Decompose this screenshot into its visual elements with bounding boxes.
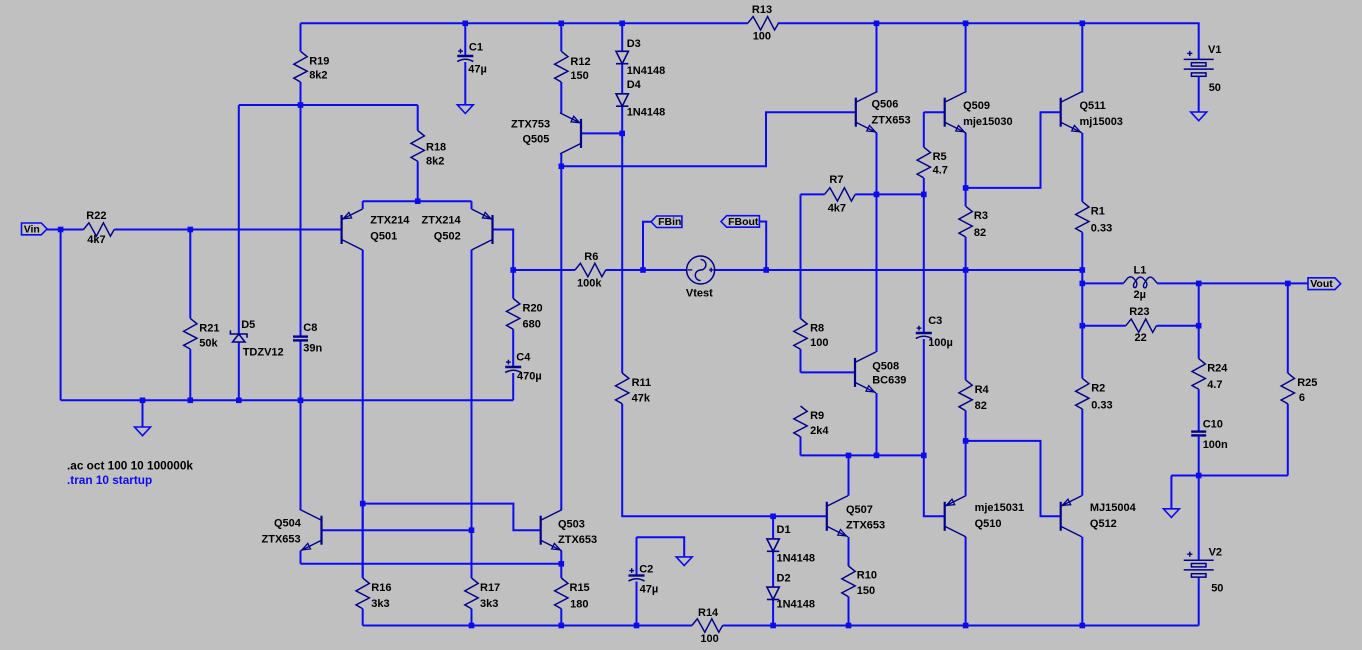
wire Q512 collector stub <box>1081 537 1083 626</box>
junction <box>763 267 769 273</box>
transistor Q501 <box>342 209 363 250</box>
resistor R11 <box>616 373 629 404</box>
wire R1 R2 column <box>1081 270 1083 378</box>
Q509 name <box>963 100 990 112</box>
R14 value <box>700 633 718 645</box>
wire C4 lower lead <box>512 373 514 400</box>
wire C4 upper lead <box>512 329 514 367</box>
svg-text:mje15031: mje15031 <box>975 502 1025 514</box>
D1 name <box>777 524 791 536</box>
svg-text:R24: R24 <box>1207 363 1228 375</box>
C2 value <box>640 584 659 596</box>
svg-text:C3: C3 <box>928 315 942 327</box>
wire R7 left hook <box>800 194 802 318</box>
D4 value <box>627 107 666 119</box>
svg-text:FBin: FBin <box>658 216 681 228</box>
wire top rail left <box>301 22 748 24</box>
junction <box>1080 281 1086 287</box>
wire R20 C4 column <box>512 270 514 299</box>
capacitor C4 <box>505 360 521 373</box>
Q512 type <box>1090 502 1137 514</box>
svg-text:Q510: Q510 <box>975 518 1002 530</box>
wire R4 bottom lead <box>965 411 967 441</box>
svg-text:R2: R2 <box>1091 382 1105 394</box>
wire Q503 base feed <box>363 504 540 531</box>
wire C8 column lower <box>300 340 302 400</box>
Q507 type <box>846 520 885 532</box>
svg-text:ZTX653: ZTX653 <box>872 114 911 126</box>
svg-text:100: 100 <box>810 337 828 349</box>
junction <box>1080 323 1086 329</box>
R5 name <box>933 151 947 163</box>
svg-text:R3: R3 <box>974 210 988 222</box>
wire Q504 collector stub <box>300 400 302 510</box>
svg-text:D5: D5 <box>241 319 255 331</box>
wire Q504 emitter rail <box>301 563 562 565</box>
wire Q503 collector column <box>560 166 562 510</box>
junction <box>188 227 194 233</box>
transistor Q504 <box>301 510 322 551</box>
C2 name <box>639 564 653 576</box>
junction <box>770 514 776 520</box>
Q507 name <box>846 504 873 516</box>
D4 name <box>627 79 642 91</box>
junction <box>963 623 969 629</box>
R7 name <box>829 174 843 186</box>
Q506 name <box>872 99 899 111</box>
svg-text:6: 6 <box>1299 392 1305 404</box>
resistor R13 <box>748 17 779 30</box>
resistor R7 <box>825 188 877 201</box>
wire D4 bottom lead <box>621 106 623 133</box>
Q504 name <box>274 517 302 529</box>
R19 value <box>309 70 327 82</box>
Vtest name <box>686 287 713 299</box>
wire zobel ground stub <box>1170 476 1172 509</box>
svg-text:D4: D4 <box>627 79 642 91</box>
svg-text:Q506: Q506 <box>872 99 899 111</box>
flag FBin <box>651 216 682 228</box>
R15 name <box>570 582 590 594</box>
svg-text:Q505: Q505 <box>523 134 550 146</box>
svg-text:L1: L1 <box>1134 265 1147 277</box>
flag FBin label <box>658 216 681 228</box>
C1 value <box>468 64 487 76</box>
Q504 type <box>262 534 301 546</box>
svg-text:.tran 10 startup: .tran 10 startup <box>67 473 152 487</box>
wire mid rail B <box>606 269 687 271</box>
Q510 name <box>975 518 1002 530</box>
resistor R16 <box>356 504 369 626</box>
wire C3 bottom lead <box>923 339 925 455</box>
wire Q505 base stub <box>581 132 622 134</box>
resistor R17 <box>465 530 478 625</box>
diode D4 <box>616 94 628 106</box>
svg-text:100: 100 <box>753 31 771 43</box>
svg-text:47µ: 47µ <box>468 64 487 76</box>
svg-text:R9: R9 <box>810 410 824 422</box>
R3 name <box>974 210 988 222</box>
wire Q504 emitter stub <box>300 551 302 564</box>
resistor R10 <box>842 566 855 626</box>
R17 name <box>480 582 500 594</box>
wire R25 top lead <box>1287 283 1289 373</box>
wire Q509 collector stub <box>965 23 967 92</box>
svg-text:R11: R11 <box>632 377 652 389</box>
svg-text:Q507: Q507 <box>846 504 873 516</box>
wire Q504 base rail <box>322 529 472 531</box>
svg-text:100µ: 100µ <box>928 337 953 349</box>
svg-text:R19: R19 <box>309 56 329 68</box>
svg-text:TDZV12: TDZV12 <box>243 346 284 358</box>
ground at V1 <box>1191 112 1207 121</box>
flag Vout <box>1308 278 1341 290</box>
svg-text:100: 100 <box>700 633 718 645</box>
wire Q506 collector stub <box>876 23 878 92</box>
wire R15 top lead <box>560 564 562 578</box>
svg-text:Vin: Vin <box>24 223 40 235</box>
wire FBout stub <box>760 222 767 271</box>
wire D3 D4 link <box>621 64 623 94</box>
wire D3 top lead <box>621 23 623 51</box>
svg-text:C8: C8 <box>303 322 317 334</box>
junction <box>188 398 194 404</box>
junction <box>1080 267 1086 273</box>
junction <box>1196 281 1202 287</box>
junction <box>874 192 880 198</box>
transistor Q508 <box>855 352 876 393</box>
C3 value <box>928 337 953 349</box>
svg-text:C10: C10 <box>1203 419 1223 431</box>
svg-text:180: 180 <box>570 599 588 611</box>
wire Q510 base feed <box>924 455 945 516</box>
wire Q509 emitter stub <box>965 133 967 188</box>
R11 name <box>632 377 652 389</box>
wire bottom rail right <box>723 625 1199 627</box>
resistor R21 <box>184 230 197 401</box>
R20 name <box>523 303 543 315</box>
D1 value <box>777 553 816 565</box>
Q501 name <box>370 231 397 243</box>
svg-text:Vout: Vout <box>1310 278 1333 290</box>
D5 name <box>241 319 255 331</box>
wire mid rail C <box>715 269 1083 271</box>
junction <box>360 501 366 507</box>
wire Q502 collector column <box>471 250 473 578</box>
wire bias node <box>239 104 418 106</box>
junction <box>874 453 880 459</box>
R15 value <box>570 599 588 611</box>
svg-text:R16: R16 <box>371 582 391 594</box>
V2 value <box>1211 583 1223 595</box>
diode D1 <box>767 539 779 551</box>
D5 value <box>243 346 284 358</box>
L1 name <box>1134 265 1147 277</box>
svg-text:R15: R15 <box>570 582 590 594</box>
wire C1 ground lead <box>464 62 466 105</box>
D3 name <box>627 38 641 50</box>
svg-text:2k4: 2k4 <box>810 425 829 437</box>
wire R4 top lead <box>965 270 967 380</box>
junction <box>634 623 640 629</box>
junction <box>559 561 565 567</box>
svg-text:150: 150 <box>570 70 588 82</box>
capacitor C1 <box>457 49 473 62</box>
voltage source V2 <box>1184 552 1214 578</box>
diode D3 <box>616 51 628 63</box>
R24 value <box>1207 379 1222 391</box>
wire R12 top lead <box>560 23 562 51</box>
wire Q508 base wire <box>801 371 856 373</box>
R2 value <box>1091 400 1112 412</box>
V2 name <box>1209 546 1222 558</box>
wire Q501 emitter stub <box>362 201 364 209</box>
ground at input rail <box>135 427 151 436</box>
resistor R25 <box>1281 373 1294 404</box>
wire D1 top lead <box>772 516 774 539</box>
wire mid rail A <box>513 269 575 271</box>
R21 value <box>199 338 218 350</box>
wire Q501 collector column <box>362 250 364 578</box>
resistor R2 <box>1076 378 1089 409</box>
svg-text:470µ: 470µ <box>517 371 542 383</box>
wire Q509 base wire <box>924 111 945 113</box>
svg-text:R23: R23 <box>1129 306 1149 318</box>
R1 name <box>1091 206 1105 218</box>
junction <box>1285 281 1291 287</box>
wire zobel row <box>1171 475 1287 477</box>
svg-text:C2: C2 <box>639 564 653 576</box>
svg-text:R20: R20 <box>523 303 543 315</box>
R25 value <box>1299 392 1305 404</box>
resistor R15 <box>555 578 568 626</box>
junction <box>963 185 969 191</box>
R13 value <box>753 31 771 43</box>
wire V2 bottom lead <box>1198 577 1200 625</box>
wire C2 top hook <box>636 537 638 575</box>
wire Q502 base jog <box>493 230 514 271</box>
wire R3 top lead <box>965 188 967 206</box>
junction <box>559 623 565 629</box>
Q512 name <box>1090 518 1117 530</box>
wire lower mid rail <box>801 454 924 456</box>
inductor L1 <box>1123 277 1157 288</box>
wire D1 D2 link <box>772 551 774 587</box>
wire Q511 emitter stub <box>1081 133 1083 202</box>
svg-text:R21: R21 <box>199 322 219 334</box>
svg-text:R10: R10 <box>857 569 877 581</box>
R23 value <box>1135 332 1147 344</box>
junction <box>140 398 146 404</box>
svg-text:R5: R5 <box>933 151 947 163</box>
diode D2 <box>767 587 779 599</box>
zener D5 <box>230 330 247 342</box>
R14 name <box>698 607 719 619</box>
svg-text:50: 50 <box>1209 82 1221 94</box>
junction <box>510 267 516 273</box>
C10 name <box>1203 419 1223 431</box>
svg-text:R12: R12 <box>570 56 590 68</box>
resistor R4 <box>959 380 972 411</box>
svg-text:47k: 47k <box>632 393 651 405</box>
junction <box>1196 473 1202 479</box>
resistor R6 <box>575 263 606 276</box>
Q502 name <box>434 231 461 243</box>
svg-text:ZTX653: ZTX653 <box>846 520 885 532</box>
Q502 type <box>422 215 462 227</box>
capacitor C10 <box>1191 432 1206 436</box>
wire R24 column top <box>1198 283 1200 358</box>
wire C1 top lead <box>464 23 466 56</box>
junction <box>846 453 852 459</box>
junction <box>463 21 469 27</box>
wire R24 C10 link <box>1198 389 1200 431</box>
transistor Q506 <box>856 92 877 133</box>
resistor R1 <box>1076 202 1089 233</box>
Q509 type <box>963 116 1013 128</box>
R3 value <box>974 227 986 239</box>
resistor R24 <box>1192 359 1205 390</box>
wire top rail right <box>778 23 1199 59</box>
wire R23 row right <box>1157 325 1199 327</box>
resistor R8 <box>794 319 807 350</box>
junction <box>963 438 969 444</box>
junction <box>1196 323 1202 329</box>
svg-text:R13: R13 <box>752 4 772 16</box>
svg-text:ZTX653: ZTX653 <box>558 534 597 546</box>
flag FBout <box>721 216 759 228</box>
svg-text:mj15003: mj15003 <box>1080 116 1123 128</box>
wire R11 column upper <box>621 133 623 373</box>
svg-text:50k: 50k <box>199 338 218 350</box>
svg-text:82: 82 <box>975 400 987 412</box>
R4 name <box>975 384 990 396</box>
svg-text:1N4148: 1N4148 <box>777 599 816 611</box>
svg-text:8k2: 8k2 <box>426 156 444 168</box>
svg-text:Q512: Q512 <box>1090 518 1117 530</box>
svg-text:50: 50 <box>1211 583 1223 595</box>
resistor R3 <box>959 206 972 237</box>
junction <box>559 164 565 170</box>
V1 name <box>1208 44 1221 56</box>
wire D2 bottom lead <box>772 600 774 626</box>
junction <box>619 131 625 137</box>
junction <box>619 21 625 27</box>
resistor R18 <box>411 105 424 201</box>
Q503 name <box>558 518 585 530</box>
resistor R23 <box>1126 319 1157 332</box>
R2 name <box>1091 382 1105 394</box>
Q508 name <box>872 360 899 372</box>
R16 value <box>371 598 389 610</box>
svg-text:FBout: FBout <box>728 216 759 228</box>
wire FBin stub <box>643 222 651 270</box>
svg-text:8k2: 8k2 <box>309 70 327 82</box>
svg-text:39n: 39n <box>303 342 322 354</box>
wire Q509 Q511 link <box>966 112 1061 188</box>
resistor R22 <box>84 223 115 236</box>
svg-text:680: 680 <box>523 319 541 331</box>
R4 value <box>975 400 987 412</box>
svg-text:.ac oct 100 10 100000k: .ac oct 100 10 100000k <box>67 459 193 473</box>
svg-text:Q511: Q511 <box>1080 100 1106 112</box>
svg-text:Vtest: Vtest <box>686 287 713 299</box>
ground at zobel <box>1163 509 1179 518</box>
L1 value <box>1134 289 1146 301</box>
wire R1 bottom lead <box>1081 232 1083 270</box>
junction <box>236 398 242 404</box>
R20 value <box>523 319 541 331</box>
svg-text:D2: D2 <box>777 572 791 584</box>
flag Vin <box>22 223 48 235</box>
svg-text:R17: R17 <box>480 582 500 594</box>
R24 name <box>1207 363 1228 375</box>
svg-text:1N4148: 1N4148 <box>627 65 666 77</box>
wire input row 2 <box>114 229 341 231</box>
svg-text:3k3: 3k3 <box>480 598 498 610</box>
svg-text:BC639: BC639 <box>872 375 906 387</box>
wire L1 row right <box>1157 282 1308 284</box>
transistor Q507 <box>827 496 848 537</box>
C4 value <box>517 371 542 383</box>
wire Q507 emitter lead <box>848 537 850 566</box>
capacitor C8 <box>293 337 308 341</box>
transistor Q503 <box>541 510 562 551</box>
svg-text:22: 22 <box>1135 332 1147 344</box>
R18 name <box>426 142 446 154</box>
svg-text:MJ15004: MJ15004 <box>1090 502 1137 514</box>
resistor R20 <box>507 299 520 330</box>
wire Q507 collector stub <box>848 455 850 495</box>
ground at C1 <box>457 105 473 114</box>
transistor Q512 <box>1061 496 1082 537</box>
wire C3 top lead <box>923 194 925 333</box>
R21 name <box>199 322 219 334</box>
wire R2 bottom lead <box>1081 409 1083 496</box>
R18 value <box>426 156 444 168</box>
R22 value <box>87 234 105 246</box>
svg-text:Q504: Q504 <box>274 517 302 529</box>
wire R3 bottom lead <box>965 237 967 270</box>
Q501 type <box>370 215 410 227</box>
R6 value <box>577 278 602 290</box>
flag Vin label <box>24 223 40 235</box>
R12 value <box>570 70 588 82</box>
svg-text:R6: R6 <box>584 251 598 263</box>
svg-text:ZTX214: ZTX214 <box>370 215 410 227</box>
svg-text:0.33: 0.33 <box>1091 223 1112 235</box>
svg-text:V1: V1 <box>1208 44 1221 56</box>
wire V2 top lead <box>1198 476 1200 561</box>
svg-text:D1: D1 <box>777 524 791 536</box>
wire ground stub <box>142 400 144 427</box>
junction <box>640 267 646 273</box>
wire R9 bottom hook <box>800 437 802 456</box>
wire Q505 collector stub <box>560 154 562 166</box>
svg-text:3k3: 3k3 <box>371 598 389 610</box>
wire Q506 emitter stub <box>876 133 878 195</box>
wire R5 top hook <box>923 112 925 147</box>
resistor R12 <box>555 51 568 82</box>
wire Q510 collector stub <box>965 537 967 626</box>
resistor R19 <box>294 23 307 105</box>
svg-text:R1: R1 <box>1091 206 1105 218</box>
Q510 type <box>975 502 1025 514</box>
junction <box>1080 623 1086 629</box>
svg-text:1N4148: 1N4148 <box>777 553 816 565</box>
svg-text:Q502: Q502 <box>434 231 461 243</box>
junction <box>921 453 927 459</box>
